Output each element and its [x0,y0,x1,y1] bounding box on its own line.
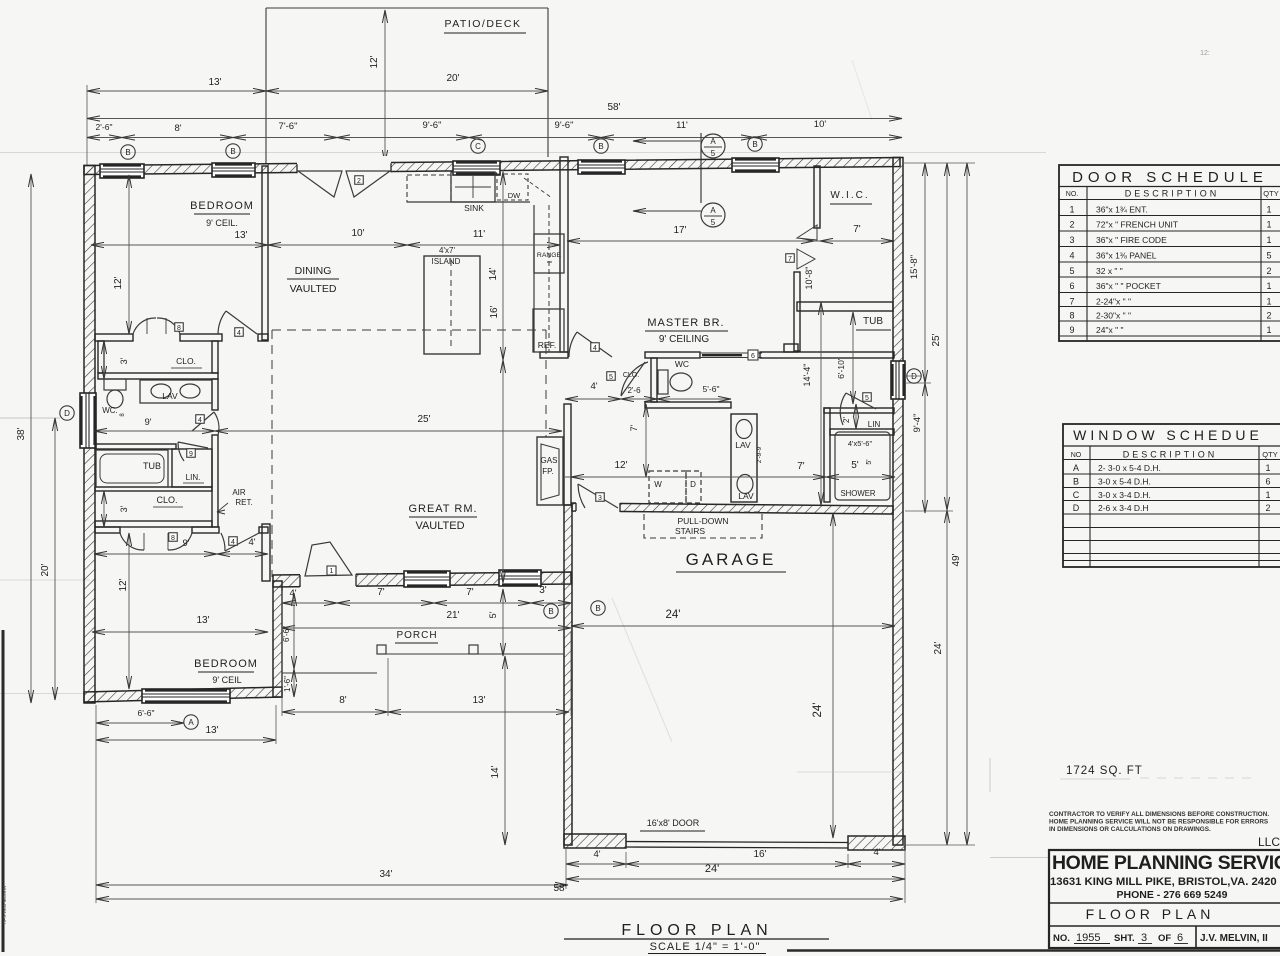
svg-text:5: 5 [711,218,716,227]
svg-text:25': 25' [931,333,942,346]
porch west wall [273,581,282,697]
svg-text:A: A [710,137,716,146]
faint line near titleblock [990,857,1049,859]
svg-text:2'-9-9: 2'-9-9 [756,446,763,463]
svg-text:13': 13' [205,725,218,736]
svg-text:ISLAND: ISLAND [432,257,461,266]
right extension lines [903,162,975,164]
svg-text:7: 7 [1069,297,1074,307]
door 8 bedroom1 double [133,318,156,334]
svg-text:8': 8' [339,695,347,706]
svg-text:58': 58' [553,883,566,894]
window A bottom wall [142,689,230,703]
svg-text:1: 1 [1265,463,1270,473]
svg-text:9'-4": 9'-4" [912,414,923,433]
linen2 2ft dim [855,404,857,429]
svg-text:VAULTED: VAULTED [415,520,464,532]
master bath 7ft vertical [645,404,647,477]
svg-text:1: 1 [1266,220,1271,230]
svg-text:4: 4 [198,417,202,424]
bottom dim 58ft [96,898,903,900]
master wic dim row y241 [567,240,894,242]
svg-text:B: B [595,604,600,613]
svg-text:FLOOR PLAN: FLOOR PLAN [621,922,772,939]
faint mark right of garage vertical [989,758,991,792]
master closet 5 [607,372,616,381]
svg-text:HOME PLANNING SERVICE: HOME PLANNING SERVICE [1052,852,1280,874]
bottom dim 6-6 [96,722,184,724]
svg-text:4': 4' [593,849,600,860]
svg-text:7': 7' [797,461,805,472]
svg-text:3-0 x 5-4 D.H.: 3-0 x 5-4 D.H. [1098,477,1151,487]
bath wall above tub [95,444,176,449]
svg-text:7': 7' [466,587,474,598]
svg-text:D: D [911,372,917,381]
kitchen master dim row y245 [91,244,560,246]
svg-text:5': 5' [851,460,859,471]
svg-text:8: 8 [177,325,181,332]
tub room south wall [760,352,894,358]
master vanity wall [731,414,757,502]
svg-text:8: 8 [1069,311,1074,321]
svg-text:10'-8": 10'-8" [804,267,814,290]
svg-text:A: A [1073,463,1079,473]
bottom dim 34ft [96,884,568,886]
svg-text:38': 38' [16,427,27,440]
svg-text:MASTER BR.: MASTER BR. [647,317,724,329]
master suite east wall [794,272,800,351]
linen closet hall bath [172,449,212,487]
faint extension line window D left [0,417,60,419]
svg-text:TUB: TUB [143,461,161,471]
left dim 38ft [30,174,32,703]
sheet bottom edge [787,949,1280,952]
svg-text:3-0 x 3-4 D.H.: 3-0 x 3-4 D.H. [1098,490,1151,500]
great room east wall [564,404,571,505]
svg-text:4': 4' [248,537,255,548]
porch slab edge [282,672,377,674]
svg-text:16': 16' [753,849,766,860]
svg-text:5: 5 [1266,251,1271,261]
svg-text:13': 13' [208,77,221,88]
svg-text:6'-10": 6'-10" [836,357,846,379]
kitchen east wall [560,157,568,352]
kitchen island [424,256,480,354]
faint scan line 2 [0,579,90,581]
pull down stairs [644,512,762,538]
svg-text:2-6 x 3-4 D.H: 2-6 x 3-4 D.H [1098,503,1149,513]
svg-text:4'x5'-6": 4'x5'-6" [848,439,873,448]
svg-text:SCALE 1/4" = 1'-0": SCALE 1/4" = 1'-0" [650,941,761,953]
faint mark right of garage horizontal [797,771,905,773]
svg-text:4: 4 [1069,251,1074,261]
window C top wall [453,161,500,175]
svg-text:NO.: NO. [1053,933,1070,944]
garage interior vertical 24ft [832,513,834,838]
svg-text:SHT.: SHT. [1114,933,1135,944]
svg-text:2-30"x " ": 2-30"x " " [1096,311,1131,321]
master wall stub [784,344,798,352]
window B porch 2 [499,570,541,586]
shower west wall [824,408,830,502]
svg-text:58': 58' [607,102,620,113]
svg-text:B: B [598,142,603,151]
svg-text:32 x " ": 32 x " " [1096,266,1123,276]
svg-text:WC: WC [675,359,689,369]
svg-text:A: A [188,718,194,727]
svg-text:2'-6": 2'-6" [96,122,113,132]
svg-text:STAIRS: STAIRS [675,526,705,536]
tub room 14-4 dim [820,302,822,505]
svg-text:72"x " FRENCH UNIT: 72"x " FRENCH UNIT [1096,220,1178,230]
master wc toilet [658,370,668,394]
bedroom1 vertical dim 12ft [128,175,130,334]
svg-text:DINING: DINING [295,265,332,277]
svg-text:LIN: LIN [868,420,881,429]
door 7 wic bifold [797,225,817,240]
svg-text:36"x 1⅜ PANEL: 36"x 1⅜ PANEL [1096,251,1157,261]
svg-text:W.I.C.: W.I.C. [830,190,869,201]
svg-text:6'-6": 6'-6" [282,626,291,642]
garage dim 24ft bottom [566,878,905,880]
master bath south wall [645,402,731,408]
svg-text:1: 1 [1266,281,1271,291]
svg-text:9' CEILING: 9' CEILING [659,334,709,345]
svg-text:9'-6": 9'-6" [555,120,574,131]
svg-text:B: B [125,148,130,157]
svg-text:10': 10' [351,228,364,239]
svg-text:DESCRIPTION: DESCRIPTION [1123,450,1218,460]
refrigerator [533,309,564,352]
door 4 hall to master bath [577,332,612,357]
svg-text:5: 5 [1069,266,1074,276]
svg-text:4': 4' [873,847,880,858]
svg-text:4: 4 [237,330,241,337]
window schedule rows [1063,473,1280,475]
hall wall mid [212,379,218,410]
svg-text:21': 21' [446,610,459,621]
kitchen dim 14ft 16ft vertical [502,170,504,583]
svg-text:5: 5 [711,149,716,158]
vault dashed line vertical left [271,330,273,577]
door 3 opening in garage north wall [576,500,620,515]
linen2 shelf wall [830,429,894,435]
svg-text:24': 24' [812,703,824,718]
kitchen south wall [540,352,568,358]
svg-text:2: 2 [1266,311,1271,321]
svg-text:AIR: AIR [232,488,246,497]
svg-text:5: 5 [865,395,869,402]
master bath dim row y399 [565,398,731,400]
svg-text:C: C [475,142,481,151]
svg-text:24"x " ": 24"x " " [1096,325,1123,335]
svg-text:GARAGE: GARAGE [686,550,777,569]
svg-text:HPS 1955 MELVIN: HPS 1955 MELVIN [2,886,7,924]
porch depth 5ft and 14ft vertical [502,589,504,656]
door 1 opening in great room south wall [300,570,356,589]
svg-text:CLO.: CLO. [156,495,177,505]
window D tag left [60,406,74,420]
bottom extension lines [95,705,97,903]
svg-text:10': 10' [814,119,827,130]
svg-text:QTY: QTY [1263,189,1278,198]
svg-text:6: 6 [751,353,755,360]
garage west wall [564,505,572,845]
exterior wall bottom-left bedroom [84,687,282,702]
svg-text:CONTRACTOR TO VERIFY ALL DIMEN: CONTRACTOR TO VERIFY ALL DIMENSIONS BEFO… [1049,811,1269,818]
bottom dim row 8ft 13ft [282,711,569,713]
svg-text:J.V. MELVIN, II: J.V. MELVIN, II [1200,933,1268,944]
window tag B2 [226,144,240,158]
svg-text:IN DIMENSIONS OR CALCULATIONS: IN DIMENSIONS OR CALCULATIONS ON DRAWING… [1049,826,1211,833]
svg-text:6: 6 [1069,281,1074,291]
window tag B4 [748,137,762,151]
svg-text:14': 14' [490,765,501,778]
wic south wall [797,302,893,311]
svg-text:SINK: SINK [464,203,484,213]
bottom dim 13ft [96,739,276,741]
svg-text:5': 5' [866,459,873,464]
svg-text:3: 3 [1069,235,1074,245]
hall bath dim 3ft upper [103,341,105,379]
closet1 walls [98,341,104,373]
svg-text:WINDOW SCHEDUE: WINDOW SCHEDUE [1073,427,1263,443]
master bath north wall left [645,352,700,358]
left sheet edge artifact [2,630,5,952]
range [534,234,564,273]
svg-text:7: 7 [788,256,792,263]
hall bath dim 3ft lower [103,491,105,527]
shower stall [835,432,890,500]
window schedule columns [1089,446,1091,567]
wc compartment wall [651,358,657,402]
svg-text:15'-8": 15'-8" [909,255,920,279]
svg-text:B: B [548,607,553,616]
svg-text:7': 7' [853,224,861,235]
svg-text:D: D [1073,503,1080,513]
door 1 porch entry [305,542,352,576]
svg-text:16': 16' [489,305,500,318]
svg-text:1724 SQ. FT: 1724 SQ. FT [1066,765,1143,777]
door 2 opening in top wall [297,156,391,177]
svg-text:DOOR SCHEDULE: DOOR SCHEDULE [1072,169,1268,186]
window B2 top wall [212,163,255,177]
svg-text:B: B [1073,477,1079,487]
door 9 linen [178,442,208,448]
svg-text:LIN.: LIN. [186,473,201,482]
svg-text:24': 24' [933,641,944,654]
faint line bottom left [0,693,84,695]
porch dim 21ft [282,627,571,629]
svg-text:LLC: LLC [1258,835,1280,849]
faint crease upper right [852,60,872,120]
svg-text:12:: 12: [1200,50,1210,57]
kitchen counter edge [407,201,530,203]
garage door head lines [626,842,848,843]
svg-text:LAV: LAV [738,491,754,501]
svg-text:6: 6 [1177,932,1183,944]
svg-text:36"x " " POCKET: 36"x " " POCKET [1096,281,1161,291]
svg-text:B: B [752,140,757,149]
svg-text:HOME PLANNING SERVICE WILL NOT: HOME PLANNING SERVICE WILL NOT BE RESPON… [1049,819,1269,826]
svg-text:PORCH: PORCH [396,630,437,641]
svg-text:11': 11' [676,120,688,131]
svg-text:8: 8 [171,535,175,542]
vault dashed line vertical right [545,330,547,437]
window B3 top wall [578,160,625,174]
svg-text:4'x7': 4'x7' [439,246,455,255]
svg-text:9': 9' [144,417,151,428]
door 4 hall to great room [192,412,214,431]
pocket door 6 [700,352,762,354]
svg-text:2': 2' [842,417,851,423]
patio deck outline [266,7,548,9]
svg-text:2: 2 [1266,266,1271,276]
svg-text:B: B [230,147,235,156]
porch 6-6 dim vertical [293,593,295,697]
hall wall lower [212,435,218,527]
dim 58 ft top [87,118,902,120]
faint scan line [0,152,1046,154]
door schedule column lines [1086,187,1088,342]
window tag A bottom [184,715,198,729]
svg-text:1: 1 [1266,297,1271,307]
svg-text:12': 12' [369,55,380,68]
svg-text:4: 4 [593,345,597,352]
porch dim row [282,602,571,604]
svg-text:A: A [710,206,716,215]
bedroom2 east wall [262,524,270,581]
svg-text:2: 2 [1069,220,1074,230]
svg-text:14': 14' [488,267,499,280]
svg-text:LAV: LAV [162,391,178,401]
svg-text:5: 5 [609,374,613,381]
svg-text:VAULTED: VAULTED [290,283,337,295]
garage south wall left block [564,834,626,848]
window schedule box [1063,424,1280,567]
door 3 garage entry [578,484,618,508]
svg-text:6: 6 [1265,477,1270,487]
window tag B1 [121,145,135,159]
svg-text:2: 2 [1265,503,1270,513]
exterior wall top [84,158,900,175]
svg-text:49': 49' [951,553,962,566]
svg-text:FLOOR PLAN: FLOOR PLAN [1086,906,1215,922]
svg-text:7': 7' [629,424,639,431]
svg-text:36"x 1¾ ENT.: 36"x 1¾ ENT. [1096,205,1148,215]
svg-text:4: 4 [231,539,235,546]
wic west wall [814,166,820,228]
patio dim 12 ft [384,10,386,163]
window tag C [471,139,485,153]
svg-text:LAV: LAV [735,440,751,450]
svg-text:2- 3-0 x 5-4 D.H.: 2- 3-0 x 5-4 D.H. [1098,463,1161,473]
svg-text:8': 8' [174,123,181,134]
svg-text:CLO.: CLO. [176,356,196,366]
svg-text:9'-6": 9'-6" [423,120,442,131]
svg-text:5': 5' [488,611,498,618]
right dim 49 [966,163,968,845]
svg-text:1: 1 [1069,205,1074,215]
vault dashed line horizontal [272,329,546,331]
section cut A5 upper [700,133,702,203]
bedroom2 dim 13ft [92,631,268,633]
bedroom2 dim 12ft [128,533,130,689]
bedroom1 south wall segments [95,334,133,341]
exterior wall left [84,166,95,704]
svg-text:9' CEIL.: 9' CEIL. [206,218,238,228]
svg-text:6'-6": 6'-6" [138,708,155,718]
hall tub [96,450,168,487]
garage north wall [572,503,893,514]
porch window tag B1 [544,604,558,618]
left dim 20ft [54,418,56,700]
window tag D right [907,369,921,383]
svg-text:PATIO/DECK: PATIO/DECK [444,18,521,30]
svg-text:9' CEIL: 9' CEIL [212,675,241,685]
svg-text:D: D [690,480,696,489]
door 2 french unit [298,171,342,197]
svg-text:16'x8' DOOR: 16'x8' DOOR [647,818,700,828]
title block box [1049,850,1280,948]
closet2 bottom wall [95,521,212,527]
svg-text:3': 3' [119,357,129,364]
svg-text:1: 1 [1266,205,1271,215]
svg-text:WC.: WC. [102,406,118,415]
garage south wall right block [848,836,905,850]
svg-text:3: 3 [1141,932,1147,944]
right dim 15-8 and 9-4 [924,163,926,513]
window B porch 1 [404,571,450,587]
hall toilet [104,379,126,390]
door schedule box [1059,165,1280,341]
hall wall upper [212,341,218,373]
door 8 bedroom2 double [120,533,144,550]
porch post 2 [469,645,478,654]
svg-text:12': 12' [614,460,627,471]
svg-text:GREAT RM.: GREAT RM. [408,503,477,515]
svg-text:REF.: REF. [538,340,556,350]
svg-text:3': 3' [539,585,547,596]
svg-text:24': 24' [666,609,681,621]
svg-text:3: 3 [598,495,602,502]
faint dashes right of 1724 sqft [1140,777,1255,779]
hall 9ft 4ft dim [94,553,268,555]
gas fireplace [537,437,563,505]
svg-text:QTY: QTY [1262,450,1277,459]
door schedule rows [1059,215,1280,217]
svg-text:20': 20' [40,563,51,576]
dishwasher [497,174,528,200]
svg-text:12': 12' [113,276,124,289]
svg-text:NO: NO [1071,452,1082,459]
svg-text:DESCRIPTION: DESCRIPTION [1125,189,1220,199]
svg-text:TUB: TUB [863,316,883,327]
washer dryer [649,471,686,503]
svg-text:SHOWER: SHOWER [840,489,875,498]
svg-text:1: 1 [1266,235,1271,245]
svg-text:13': 13' [196,615,209,626]
svg-text:2-24"x " ": 2-24"x " " [1096,297,1131,307]
wall under tub [95,487,212,491]
svg-text:RANGE: RANGE [537,252,562,259]
kitchen counter left dashed [407,175,451,202]
svg-text:BEDROOM: BEDROOM [190,200,254,212]
svg-text:12': 12' [118,578,129,591]
kitchen counter right [533,205,535,352]
porch post 1 [377,645,386,654]
section cut A5 lower [701,203,725,227]
